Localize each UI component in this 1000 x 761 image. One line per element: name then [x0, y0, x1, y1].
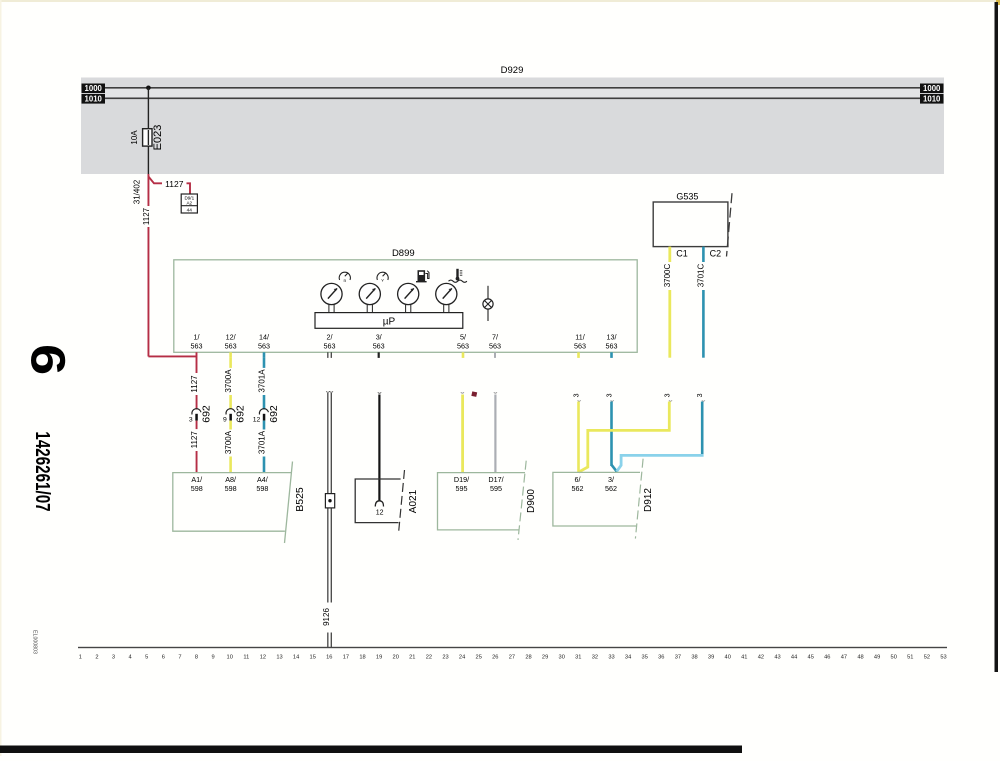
svg-text:D17/: D17/: [488, 475, 503, 484]
svg-text:7: 7: [178, 655, 181, 661]
wire 3700A segment: [229, 358, 232, 368]
svg-text:36: 36: [658, 655, 664, 661]
pin C1 of G535: [668, 247, 687, 262]
wire 3700C segment: [668, 290, 671, 358]
wire 3701C segment: [702, 290, 705, 358]
svg-text:43: 43: [774, 655, 780, 661]
connector 692 pin 3 on wire 1127: [189, 409, 201, 424]
svg-text:8: 8: [195, 655, 198, 661]
designator D899: [392, 248, 415, 259]
pin 12/563 of D899: [225, 333, 237, 351]
designator D900: [526, 489, 537, 513]
designator A021: [408, 489, 419, 513]
svg-text:563: 563: [191, 342, 203, 351]
svg-text:3: 3: [607, 393, 614, 397]
svg-text:3: 3: [664, 393, 671, 397]
pin D17/595 of D900: [488, 475, 503, 493]
svg-text:563: 563: [574, 342, 586, 351]
svg-text:D899: D899: [392, 248, 415, 259]
pin 12 of A021 (socket): [375, 501, 383, 517]
document number 1426261/07: [32, 431, 55, 511]
net 1010 supply rail: [82, 94, 944, 104]
svg-text:1127: 1127: [190, 431, 199, 449]
wire label 1127 (above connector): [190, 374, 201, 396]
icon rev counter above gauge 1: [339, 272, 350, 284]
pin 3/563 of D899: [373, 333, 385, 351]
svg-text:6: 6: [21, 344, 74, 375]
wire 3700A segment below connector: [229, 421, 232, 430]
svg-text:31/402: 31/402: [132, 179, 141, 204]
wire label 3 at x=669.3: [664, 393, 671, 397]
svg-text:14/: 14/: [259, 333, 269, 342]
svg-text:µP: µP: [383, 317, 396, 328]
fuse rating label 10A: [130, 130, 139, 145]
svg-text:598: 598: [256, 484, 268, 493]
yellow wire pin 5/563 to D900 D19: [461, 392, 464, 472]
wire label 3700C: [663, 262, 674, 290]
svg-text:563: 563: [606, 342, 618, 351]
wire label 1127 (upper left): [142, 207, 151, 225]
wire label 1127 (below connector): [190, 430, 201, 452]
svg-text:1: 1: [79, 655, 82, 661]
wire label 31/402: [132, 179, 141, 204]
svg-text:16: 16: [326, 655, 332, 661]
svg-text:A1/: A1/: [191, 475, 202, 484]
svg-text:11/: 11/: [575, 333, 584, 342]
page number 6: [21, 344, 74, 375]
stub pin 2/563 shielded pair: [327, 352, 332, 358]
svg-text:1426261/07: 1426261/07: [32, 431, 55, 511]
svg-text:595: 595: [456, 484, 468, 493]
pin 13/563 of D899: [606, 333, 618, 351]
component D900: [438, 461, 527, 540]
designator G535: [676, 192, 698, 202]
svg-text:3701C: 3701C: [697, 263, 706, 287]
gauge 3 in D899: [398, 283, 419, 312]
svg-text:2: 2: [95, 655, 98, 661]
svg-text:53: 53: [940, 655, 946, 661]
svg-text:26: 26: [492, 655, 498, 661]
gauge 1 in D899: [321, 283, 342, 312]
pin 7/563 of D899: [489, 333, 501, 351]
svg-text:A2: A2: [186, 201, 192, 206]
svg-text:3700A: 3700A: [224, 369, 233, 393]
pin C2 of G535: [702, 247, 721, 262]
pin A1/598 of B525: [191, 475, 203, 493]
svg-text:1000: 1000: [923, 84, 941, 93]
svg-text:47: 47: [841, 655, 847, 661]
wire label 9126: [322, 603, 334, 633]
svg-text:D19/: D19/: [454, 475, 469, 484]
wire 3701A segment: [263, 358, 266, 368]
node label 1127 (horizontal): [165, 179, 184, 189]
connector 692 pin 12 on wire 3701A: [253, 409, 269, 424]
pin 5/563 of D899: [457, 333, 469, 351]
gray wire pin 7/563 to D900 D17: [494, 392, 497, 472]
wire label 3700A (lower): [224, 430, 235, 457]
warning lamp in D899: [483, 286, 493, 321]
icon speedometer above gauge 2: [377, 272, 388, 282]
svg-text:22: 22: [426, 655, 432, 661]
component G535: [653, 193, 732, 256]
svg-text:44: 44: [791, 655, 797, 661]
svg-text:45: 45: [808, 655, 814, 661]
svg-text:42: 42: [758, 655, 764, 661]
microprocessor box uP: [315, 313, 463, 329]
black wire pin 3/563 to A021: [378, 392, 381, 501]
svg-text:595: 595: [490, 484, 502, 493]
svg-text:563: 563: [457, 342, 469, 351]
svg-text:1127: 1127: [142, 207, 151, 225]
stub pin 5/563 yellow: [462, 352, 465, 358]
svg-text:3701A: 3701A: [257, 430, 266, 454]
wire from fuse to band edge: [148, 146, 149, 174]
svg-text:7/: 7/: [492, 333, 498, 342]
svg-text:14: 14: [293, 655, 299, 661]
svg-text:32: 32: [592, 655, 598, 661]
svg-text:44: 44: [187, 207, 193, 213]
wire label 3700A (upper): [224, 368, 235, 395]
svg-text:9: 9: [212, 655, 215, 661]
svg-text:n: n: [343, 279, 346, 284]
wire 1127 branch to reference box: [148, 177, 190, 195]
wire label 3701A (lower): [257, 430, 268, 457]
pin 14/563 of D899: [258, 333, 270, 351]
svg-text:9126: 9126: [322, 608, 331, 626]
pin 11/563 of D899: [574, 333, 586, 351]
svg-text:3701A: 3701A: [257, 369, 266, 393]
svg-text:3700C: 3700C: [663, 263, 672, 287]
cross-reference box D9/1 A2 44: [181, 194, 197, 213]
connector designator 692 (yellow wire): [235, 405, 247, 423]
wire 3701A segment below connector: [263, 421, 266, 430]
svg-text:24: 24: [459, 655, 465, 661]
svg-text:692: 692: [268, 405, 280, 423]
component D912: [553, 459, 643, 539]
bottom coordinate scale: [78, 647, 947, 661]
svg-text:41: 41: [741, 655, 747, 661]
svg-text:52: 52: [924, 655, 930, 661]
stub pin 7/563 gray: [494, 352, 496, 358]
svg-text:10: 10: [227, 655, 233, 661]
icon coolant temperature above gauge 4: [449, 269, 467, 283]
svg-text:C1: C1: [676, 249, 688, 259]
wire from rail 1000 to fuse E023: [148, 88, 149, 129]
svg-text:3/: 3/: [376, 333, 382, 342]
svg-text:5: 5: [145, 655, 148, 661]
svg-text:3: 3: [574, 393, 581, 397]
pin A4/598 of B525: [256, 475, 268, 493]
svg-text:D900: D900: [526, 489, 537, 513]
connector designator 692 (red wire): [201, 405, 213, 423]
svg-text:12: 12: [260, 655, 266, 661]
yellow wire 3 from pin 11/563 to D912 pin 6/562: [577, 400, 581, 472]
wire 1127 segment below connector: [196, 421, 198, 430]
fuse designator E023: [152, 125, 164, 151]
svg-text:563: 563: [373, 342, 385, 351]
pin 2/563 of D899: [324, 333, 336, 351]
node D929 label: [501, 65, 524, 76]
svg-text:E023: E023: [152, 125, 164, 151]
svg-text:692: 692: [235, 405, 247, 423]
svg-text:30: 30: [559, 655, 565, 661]
wire 3701A segment: [263, 395, 266, 410]
svg-text:563: 563: [489, 342, 501, 351]
pin 1/563 of D899: [191, 333, 203, 351]
pin 3/562 of D912: [605, 475, 617, 493]
svg-text:563: 563: [225, 342, 237, 351]
svg-text:50: 50: [891, 655, 897, 661]
svg-text:4: 4: [129, 655, 132, 661]
blue wire 3 from pin 13/563 to D912 pin 3/562: [610, 400, 616, 472]
wire label 3701A (upper): [257, 368, 268, 395]
junction on rail 1000: [146, 86, 151, 91]
svg-text:11: 11: [243, 655, 249, 661]
wire label 3701C: [697, 262, 708, 290]
svg-text:EL000803: EL000803: [32, 630, 38, 654]
svg-text:562: 562: [605, 484, 617, 493]
svg-text:A4/: A4/: [257, 475, 268, 484]
pin A8/598 of B525: [225, 475, 237, 493]
svg-text:15: 15: [310, 655, 316, 661]
svg-text:B525: B525: [294, 487, 306, 512]
svg-text:39: 39: [708, 655, 714, 661]
svg-text:29: 29: [542, 655, 548, 661]
svg-text:3700A: 3700A: [224, 430, 233, 454]
svg-text:5/: 5/: [460, 333, 466, 342]
svg-text:12: 12: [376, 510, 384, 517]
svg-text:562: 562: [572, 484, 584, 493]
stray mark (red): [471, 391, 477, 397]
svg-text:A8/: A8/: [225, 475, 236, 484]
svg-text:51: 51: [907, 655, 913, 661]
svg-text:563: 563: [324, 342, 336, 351]
svg-text:49: 49: [874, 655, 880, 661]
svg-text:3: 3: [189, 417, 193, 424]
wire 1127 segment to B525: [196, 451, 198, 473]
svg-text:46: 46: [824, 655, 830, 661]
inline connector on wire 9126: [325, 494, 334, 508]
wire 1127 elbow to pin 1/563: [148, 352, 196, 373]
svg-text:31: 31: [575, 655, 581, 661]
yellow wire 3 from G535 C1 to D912 pin 6/562: [579, 400, 673, 472]
svg-text:25: 25: [476, 655, 482, 661]
svg-text:1010: 1010: [85, 95, 103, 104]
pin 6/562 of D912: [572, 475, 584, 493]
connector designator 692 (blue wire): [268, 405, 280, 423]
wire 3700A segment: [229, 395, 232, 410]
stub pin 11/563 yellow: [577, 352, 580, 358]
svg-text:9: 9: [223, 417, 227, 424]
designator D912: [643, 488, 654, 512]
svg-text:23: 23: [442, 655, 448, 661]
svg-text:38: 38: [691, 655, 697, 661]
svg-text:D912: D912: [643, 488, 654, 512]
svg-text:1/: 1/: [194, 333, 200, 342]
component A021: [355, 470, 404, 534]
wire 1127 red vertical from fuse: [148, 174, 150, 357]
svg-text:21: 21: [409, 655, 415, 661]
component B525: [173, 462, 293, 544]
wire 1127 segment: [196, 395, 198, 410]
svg-text:3/: 3/: [608, 475, 614, 484]
svg-text:17: 17: [343, 655, 349, 661]
stub pin 14/563 blue: [263, 352, 266, 358]
fuse E023 10A: [143, 129, 152, 146]
designator B525: [294, 487, 306, 512]
svg-text:10A: 10A: [130, 130, 139, 145]
svg-text:33: 33: [608, 655, 614, 661]
power supply band D929: [81, 78, 944, 175]
svg-text:G535: G535: [676, 192, 698, 202]
svg-text:692: 692: [201, 405, 213, 423]
svg-text:3: 3: [697, 393, 704, 397]
svg-text:12/: 12/: [226, 333, 236, 342]
svg-text:28: 28: [525, 655, 531, 661]
svg-text:20: 20: [393, 655, 399, 661]
instrument cluster D899: [174, 260, 637, 353]
svg-text:A021: A021: [408, 489, 419, 513]
blue wire 3 from G535 C2 to D912 pin 3/562: [617, 400, 705, 471]
svg-text:13/: 13/: [607, 333, 617, 342]
svg-text:40: 40: [725, 655, 731, 661]
svg-text:27: 27: [509, 655, 515, 661]
shielded pair wire 9126: [326, 391, 333, 647]
stub pin 3/563 black: [378, 352, 380, 358]
gauge 4 in D899: [436, 283, 457, 312]
svg-text:6: 6: [162, 655, 165, 661]
svg-text:19: 19: [376, 655, 382, 661]
svg-text:2/: 2/: [327, 333, 333, 342]
svg-text:598: 598: [191, 484, 203, 493]
wire label 3 at x=702.2: [697, 393, 704, 397]
svg-text:3: 3: [112, 655, 115, 661]
wire 3700A segment to B525: [229, 457, 232, 473]
svg-text:6/: 6/: [575, 475, 581, 484]
svg-text:12: 12: [253, 417, 261, 424]
svg-text:1010: 1010: [923, 95, 941, 104]
svg-text:37: 37: [675, 655, 681, 661]
wire label 3 at x=611.5: [607, 393, 614, 397]
svg-text:D929: D929: [501, 65, 524, 76]
pin D19/595 of D900: [454, 475, 469, 493]
icon fuel pump above gauge 3: [416, 270, 429, 282]
svg-text:13: 13: [276, 655, 282, 661]
svg-text:35: 35: [642, 655, 648, 661]
svg-text:563: 563: [258, 342, 270, 351]
svg-text:1127: 1127: [165, 179, 184, 189]
wire label 3 at x=578.5: [574, 393, 581, 397]
svg-text:C2: C2: [710, 249, 722, 259]
net 1000 supply rail: [82, 84, 944, 94]
svg-text:1127: 1127: [190, 375, 199, 393]
stub pin 13/563 blue: [610, 352, 613, 358]
print reference EL000803: [32, 630, 38, 654]
svg-text:598: 598: [225, 484, 237, 493]
gauge 2 in D899: [359, 283, 380, 312]
connector 692 pin 9 on wire 3700A: [223, 409, 235, 424]
wire 3701A segment to B525: [263, 457, 266, 473]
stub pin 12/563 yellow: [229, 352, 232, 358]
svg-text:34: 34: [625, 655, 631, 661]
svg-text:48: 48: [857, 655, 863, 661]
svg-text:18: 18: [359, 655, 365, 661]
svg-text:1000: 1000: [85, 84, 103, 93]
